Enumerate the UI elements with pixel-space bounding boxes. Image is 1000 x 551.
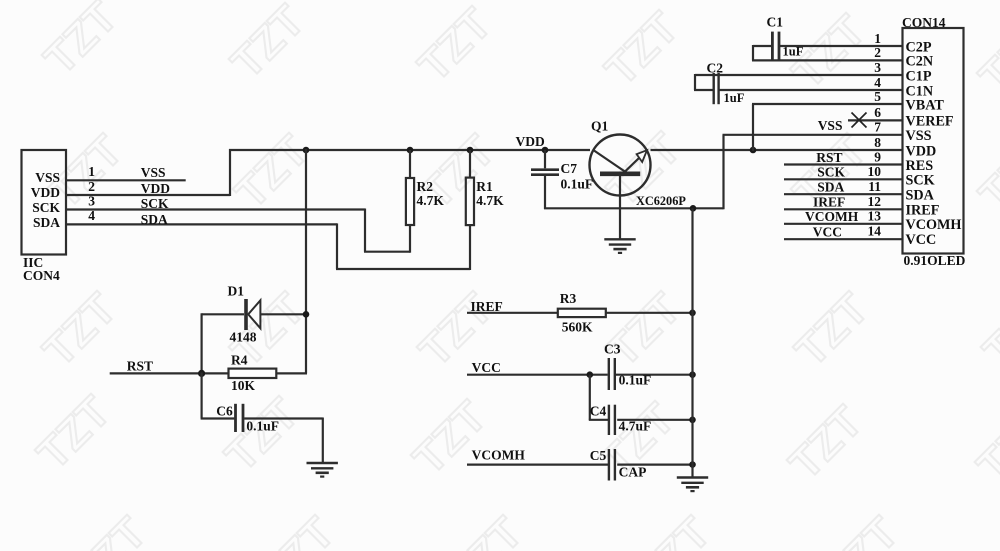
label XC6206P xyxy=(636,194,686,208)
svg-text:C6: C6 xyxy=(216,403,233,418)
svg-text:RST: RST xyxy=(127,358,153,373)
net label RST (CON14 side) xyxy=(816,150,842,165)
junction VDD/VBAT xyxy=(750,147,757,154)
svg-text:IREF: IREF xyxy=(813,195,845,210)
CON14 pin name VSS xyxy=(906,128,932,144)
junction R3 to ground bus xyxy=(689,310,696,317)
junction D1 to VDD branch xyxy=(303,311,310,318)
label C5 xyxy=(590,448,607,463)
wire from VDD rail down to D1/R4 xyxy=(305,149,307,373)
svg-text:C2N: C2N xyxy=(906,54,934,70)
wire CON14 pin1 (C2P) xyxy=(753,45,902,60)
CON14 pin number 4 xyxy=(874,75,881,90)
junction on VDD rail at R2 xyxy=(407,147,414,154)
label R1 xyxy=(476,179,493,194)
CON4 pin number 2 xyxy=(88,179,95,194)
no-connect X on VEREF xyxy=(852,113,867,128)
svg-text:D1: D1 xyxy=(228,283,245,298)
wire D1 left leg down to RST node xyxy=(201,313,203,373)
value 4.7K (R1) xyxy=(476,193,504,208)
wire VDD rail from Q1 to CON14 pin8 xyxy=(651,149,903,151)
svg-text:1uF: 1uF xyxy=(783,45,804,59)
svg-text:C5: C5 xyxy=(590,448,607,463)
svg-text:C7: C7 xyxy=(561,161,578,176)
wire SDA from CON4 pin4 to R1 bottom xyxy=(66,223,470,270)
net label SDA xyxy=(141,212,168,227)
resistor R4 xyxy=(229,369,308,378)
CON14 pin number 10 xyxy=(868,164,882,179)
svg-text:4.7uF: 4.7uF xyxy=(619,418,652,433)
connector CON4 body xyxy=(22,150,67,255)
wire CON14 stub RST xyxy=(784,163,902,165)
svg-text:9: 9 xyxy=(874,149,881,164)
net label VCC (CON14 side) xyxy=(813,225,842,240)
wire C6 to ground xyxy=(244,418,323,464)
connector CON14 body xyxy=(903,28,964,254)
wire VCC branch down to C4 xyxy=(589,375,610,420)
CON14 part 0.91OLED xyxy=(904,253,966,268)
label C4 xyxy=(590,403,607,418)
wire RST node down to C6 xyxy=(201,372,235,418)
svg-text:VSS: VSS xyxy=(906,128,932,144)
wire VSS stub from CON4 pin1 xyxy=(66,179,186,181)
svg-text:0.1uF: 0.1uF xyxy=(246,418,279,433)
net label IREF xyxy=(471,299,503,314)
svg-text:VDD: VDD xyxy=(31,185,60,200)
svg-text:C2: C2 xyxy=(707,60,724,75)
svg-text:SDA: SDA xyxy=(906,188,935,204)
CON4 designator IIC xyxy=(23,255,43,270)
CON4 pin name VDD xyxy=(31,185,60,200)
CON14 pin name C2P xyxy=(906,39,932,55)
net label SCK xyxy=(141,196,169,211)
label R3 xyxy=(560,291,577,306)
label C2 xyxy=(707,60,724,75)
svg-text:VCC: VCC xyxy=(906,232,937,248)
resistor R2 xyxy=(406,150,414,225)
svg-text:VDD: VDD xyxy=(516,134,545,149)
wire CON14 stub VCC xyxy=(784,238,902,240)
label C1 xyxy=(767,15,784,30)
net label VCOMH (CON14 side) xyxy=(805,209,859,224)
value 0.1uF (C7) xyxy=(561,177,594,192)
junction on VDD rail at R1 xyxy=(467,147,474,154)
svg-text:Q1: Q1 xyxy=(591,119,609,134)
diode D1 xyxy=(202,299,306,330)
CON14 pin name VDD xyxy=(906,143,937,159)
value 560K (R3) xyxy=(562,319,593,334)
svg-text:VSS: VSS xyxy=(141,165,166,180)
svg-text:VCC: VCC xyxy=(472,360,501,375)
net label VCOMH xyxy=(472,447,526,462)
ground (bus) xyxy=(677,478,708,492)
value 0.1uF (C3) xyxy=(619,372,652,387)
svg-text:R3: R3 xyxy=(560,291,577,306)
label C3 xyxy=(604,341,621,356)
CON14 pin name C1P xyxy=(906,68,932,84)
svg-text:11: 11 xyxy=(868,179,881,194)
svg-text:560K: 560K xyxy=(562,319,593,334)
svg-text:0.1uF: 0.1uF xyxy=(561,177,594,192)
svg-text:RST: RST xyxy=(816,150,842,165)
label D1 xyxy=(228,283,245,298)
svg-text:6: 6 xyxy=(874,105,881,120)
CON14 pin name C2N xyxy=(906,54,934,70)
CON14 pin number 8 xyxy=(874,135,881,150)
svg-text:SDA: SDA xyxy=(33,215,60,230)
value 4.7K (R2) xyxy=(417,193,445,208)
wire CON14 pin4 (C1N) xyxy=(694,89,902,91)
svg-text:CON4: CON4 xyxy=(23,268,60,283)
svg-text:4.7K: 4.7K xyxy=(417,193,445,208)
svg-text:SCK: SCK xyxy=(906,173,935,189)
value 10K (R4) xyxy=(231,378,256,393)
svg-text:0.91OLED: 0.91OLED xyxy=(904,253,966,268)
capacitor C3 xyxy=(609,358,693,390)
wire VDD from CON4 pin2 up to VDD rail xyxy=(66,149,230,196)
CON14 pin name IREF xyxy=(906,203,940,219)
CON14 pin number 2 xyxy=(874,45,881,60)
wire CON14 stub SCK xyxy=(784,178,902,180)
svg-text:C3: C3 xyxy=(604,341,621,356)
svg-text:4148: 4148 xyxy=(230,329,257,344)
svg-text:R4: R4 xyxy=(231,352,248,367)
svg-text:RES: RES xyxy=(906,158,934,174)
svg-text:VSS: VSS xyxy=(818,118,843,133)
wire ground bus xyxy=(691,208,693,477)
capacitor C6 xyxy=(236,404,244,432)
CON14 pin name SCK xyxy=(906,173,935,189)
svg-text:VSS: VSS xyxy=(35,170,60,185)
wire CON14 pin6 (VEREF) stub xyxy=(848,119,902,121)
svg-text:SCK: SCK xyxy=(141,196,169,211)
junction C5 to ground bus xyxy=(689,461,696,468)
value 1uF (C1) xyxy=(783,45,804,59)
svg-text:4: 4 xyxy=(874,75,881,90)
wire VCC xyxy=(467,374,608,376)
CON4 pin name SDA xyxy=(33,215,60,230)
CON14 pin name VCOMH xyxy=(906,217,962,233)
wire CON14 pin2 (C2N) xyxy=(752,59,902,61)
net label VDD on rail xyxy=(516,134,545,149)
net label VDD xyxy=(141,181,170,196)
value CAP (C5) xyxy=(619,464,647,479)
svg-text:SDA: SDA xyxy=(817,180,844,195)
CON14 pin number 9 xyxy=(874,149,881,164)
svg-text:VCOMH: VCOMH xyxy=(906,217,962,233)
CON14 pin number 11 xyxy=(868,179,881,194)
wire CON14 pin3 (C1P) xyxy=(695,74,902,90)
net label VSS on VEREF xyxy=(818,118,843,133)
CON14 pin name RES xyxy=(906,158,934,174)
wire Q1 emitter to ground xyxy=(619,176,621,239)
svg-text:1: 1 xyxy=(88,164,95,179)
wire VCOMH xyxy=(467,464,610,466)
resistor R3 xyxy=(558,309,693,317)
CON14 pin name VEREF xyxy=(906,114,954,130)
svg-text:SCK: SCK xyxy=(32,200,60,215)
svg-text:C1P: C1P xyxy=(906,68,932,84)
wire CON14 stub VCOMH xyxy=(784,223,902,225)
capacitor C5 xyxy=(609,449,693,481)
transistor Q1 (XC6206P regulator symbol) xyxy=(590,135,651,196)
CON4 pin name VSS xyxy=(35,170,60,185)
CON14 pin name VCC xyxy=(906,232,937,248)
svg-text:C1: C1 xyxy=(767,15,784,30)
svg-text:8: 8 xyxy=(874,135,881,150)
svg-text:14: 14 xyxy=(868,224,882,239)
CON4 pin name SCK xyxy=(32,200,60,215)
wire VDD top rail xyxy=(229,149,590,151)
net label VCC xyxy=(472,360,501,375)
svg-text:VDD: VDD xyxy=(141,181,170,196)
label R4 xyxy=(231,352,248,367)
value 4148 (D1) xyxy=(230,329,257,344)
svg-text:13: 13 xyxy=(868,208,882,223)
svg-text:7: 7 xyxy=(874,120,881,135)
junction VSS rail to ground bus xyxy=(690,205,697,212)
junction on VDD rail at D1/R4 branch xyxy=(303,147,310,154)
ground (Q1) xyxy=(604,239,635,253)
CON14 pin number 7 xyxy=(874,120,881,135)
svg-text:SCK: SCK xyxy=(817,165,845,180)
junction VCC to C4 xyxy=(587,371,594,378)
net label SDA (CON14 side) xyxy=(817,180,844,195)
net label IREF (CON14 side) xyxy=(813,195,845,210)
CON4 pin number 3 xyxy=(88,193,95,208)
label C7 xyxy=(561,161,578,176)
CON14 pin name VBAT xyxy=(906,97,945,113)
CON4 pin number 1 xyxy=(88,164,95,179)
svg-text:C4: C4 xyxy=(590,403,607,418)
svg-text:VBAT: VBAT xyxy=(906,97,945,113)
ground (C6) xyxy=(307,463,338,477)
net label RST xyxy=(127,358,153,373)
CON14 pin number 5 xyxy=(874,89,881,104)
wire SCK from CON4 pin3 to R2 bottom xyxy=(66,209,410,253)
CON4 designator CON4 xyxy=(23,268,60,283)
junction C4 to ground bus xyxy=(689,417,696,424)
svg-text:XC6206P: XC6206P xyxy=(636,194,686,208)
svg-text:2: 2 xyxy=(874,45,881,60)
resistor R1 xyxy=(466,150,474,225)
net label VSS xyxy=(141,165,166,180)
CON14 pin number 1 xyxy=(874,31,881,46)
svg-text:4.7K: 4.7K xyxy=(476,193,504,208)
capacitor C2 xyxy=(714,73,719,104)
wire CON14 stub SDA xyxy=(784,193,902,195)
svg-text:1uF: 1uF xyxy=(724,91,745,105)
svg-text:CON14: CON14 xyxy=(902,15,946,30)
CON14 pin number 12 xyxy=(868,194,882,209)
CON14 pin name SDA xyxy=(906,188,935,204)
capacitor C7 xyxy=(531,150,559,209)
svg-text:1: 1 xyxy=(874,31,881,46)
capacitor C4 xyxy=(609,405,693,435)
svg-text:VCOMH: VCOMH xyxy=(805,209,859,224)
svg-text:R2: R2 xyxy=(417,179,434,194)
svg-text:SDA: SDA xyxy=(141,212,168,227)
CON14 pin number 13 xyxy=(868,208,882,223)
wire RST xyxy=(110,372,229,374)
CON14 pin name C1N xyxy=(906,83,934,99)
junction RST node xyxy=(198,370,205,377)
svg-text:12: 12 xyxy=(868,194,882,209)
wire VBAT to CON14 pin5 xyxy=(752,104,902,151)
value 0.1uF (C6) xyxy=(246,418,279,433)
svg-text:10K: 10K xyxy=(231,378,256,393)
junction on VDD rail at C7 xyxy=(542,147,549,154)
net label SCK (CON14 side) xyxy=(817,165,845,180)
svg-text:10: 10 xyxy=(868,164,882,179)
CON14 pin number 3 xyxy=(874,60,881,75)
svg-text:VCC: VCC xyxy=(813,225,842,240)
CON4 pin number 4 xyxy=(88,208,95,223)
label Q1 xyxy=(591,119,609,134)
wire VSS rail from C7 to CON14 pin7 xyxy=(544,135,902,210)
CON14 pin number 6 xyxy=(874,105,881,120)
svg-text:0.1uF: 0.1uF xyxy=(619,372,652,387)
value 4.7uF (C4) xyxy=(619,418,652,433)
svg-text:CAP: CAP xyxy=(619,464,647,479)
CON14 designator xyxy=(902,15,946,30)
wire IREF xyxy=(467,312,558,314)
CON14 pin number 14 xyxy=(868,224,882,239)
value 1uF (C2) xyxy=(724,91,745,105)
wire CON14 stub IREF xyxy=(784,208,902,210)
label R2 xyxy=(417,179,434,194)
svg-text:VCOMH: VCOMH xyxy=(472,447,526,462)
label C6 xyxy=(216,403,233,418)
junction C3 to ground bus xyxy=(689,371,696,378)
svg-text:R1: R1 xyxy=(476,179,493,194)
svg-text:3: 3 xyxy=(874,60,881,75)
capacitor C1 xyxy=(772,32,779,61)
